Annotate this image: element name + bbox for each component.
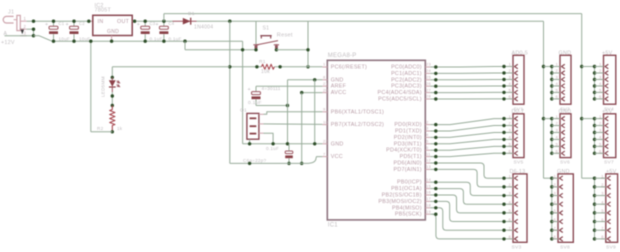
svg-text:15: 15 [426,183,431,188]
svg-text:GND: GND [331,141,344,147]
svg-text:19: 19 [426,209,431,214]
svg-text:14: 14 [426,177,431,182]
svg-text:0.1uF: 0.1uF [150,36,163,41]
svg-text:R2: R2 [97,126,104,131]
svg-text:PD3(INT1): PD3(INT1) [394,141,422,147]
svg-text:PB5(SCK): PB5(SCK) [395,212,422,218]
svg-text:+: + [45,22,48,28]
svg-text:PC6(/RESET): PC6(/RESET) [331,65,367,71]
svg-text:26: 26 [426,81,431,86]
svg-text:C1: C1 [59,21,65,26]
svg-text:PC3(ADC3): PC3(ADC3) [391,84,422,90]
svg-text:PD7(AIN1): PD7(AIN1) [393,167,421,173]
svg-text:GND: GND [557,169,570,175]
svg-text:OUT: OUT [117,19,130,25]
svg-text:PB7(XTAL2/TOSC2): PB7(XTAL2/TOSC2) [331,122,384,128]
svg-text:1k: 1k [117,126,123,131]
svg-text:PB2(SS/OC1B): PB2(SS/OC1B) [382,193,422,199]
svg-text:+: + [155,22,158,28]
svg-text:22: 22 [323,139,328,144]
svg-text:IC1: IC1 [328,223,339,229]
svg-text:SV8: SV8 [560,245,570,251]
svg-text:C3: C3 [150,21,156,26]
svg-text:MEGA8-P: MEGA8-P [328,53,357,59]
svg-text:24: 24 [426,68,431,73]
svg-text:PD6(AIN0): PD6(AIN0) [393,161,421,167]
svg-text:SV9: SV9 [606,245,616,251]
svg-text:23: 23 [426,62,431,67]
svg-text:Reset: Reset [277,33,293,39]
svg-text:+5V: +5V [602,109,613,115]
svg-text:D1: D1 [188,11,195,17]
svg-text:PB6(XTAL1/TOSC1): PB6(XTAL1/TOSC1) [331,109,384,115]
svg-text:10uF: 10uF [59,36,70,41]
svg-text:IN: IN [98,19,104,25]
svg-text:10: 10 [323,119,328,124]
svg-text:PC2(ADC2): PC2(ADC2) [391,77,422,83]
svg-text:GND: GND [331,77,344,83]
svg-text:C6a=22p?: C6a=22p? [243,158,267,163]
svg-text:20: 20 [323,87,328,92]
svg-text:0.1uF: 0.1uF [266,146,279,151]
svg-text:16: 16 [426,190,431,195]
svg-text:13: 13 [426,164,431,169]
svg-text:PC5(ADC5/SCL): PC5(ADC5/SCL) [378,97,422,103]
svg-text:4=30111: 4=30111 [262,86,281,91]
svg-text:21: 21 [323,81,328,86]
svg-text:+: + [137,22,140,28]
svg-text:SV3: SV3 [512,245,522,251]
svg-text:PD1(TXD): PD1(TXD) [395,129,422,135]
svg-text:PD4(XCK/T0): PD4(XCK/T0) [386,148,422,154]
svg-text:SV5: SV5 [514,160,524,166]
svg-text:D0-7: D0-7 [512,109,525,115]
svg-text:+12V: +12V [1,40,15,46]
svg-text:+5V: +5V [602,51,613,57]
svg-text:VCC: VCC [331,154,343,160]
svg-text:GND: GND [559,109,572,115]
svg-text:GND: GND [559,51,572,57]
svg-text:AREF: AREF [331,84,347,90]
svg-text:+5V: +5V [606,169,617,175]
svg-text:PC4(ADC4/SDA): PC4(ADC4/SDA) [378,90,422,96]
svg-text:28: 28 [426,94,431,99]
svg-text:1: 1 [24,16,27,21]
svg-text:GND: GND [107,29,119,35]
svg-text:PC0(ADC0): PC0(ADC0) [391,65,422,71]
svg-text:SV7: SV7 [604,160,614,166]
svg-text:3: 3 [24,31,27,36]
svg-text:SV6: SV6 [560,160,570,166]
svg-text:7805T: 7805T [95,8,112,14]
svg-text:1N4004: 1N4004 [194,25,213,31]
svg-text:11: 11 [426,151,431,156]
svg-text:25: 25 [426,75,431,80]
svg-text:0.1uF: 0.1uF [169,36,182,41]
svg-text:+: + [66,22,69,28]
svg-text:12: 12 [426,158,431,163]
svg-text:PD0(RXD): PD0(RXD) [394,122,421,128]
svg-text:PC1(ADC1): PC1(ADC1) [391,71,422,77]
svg-text:10k: 10k [261,69,270,75]
svg-text:LED5MM: LED5MM [101,76,106,97]
svg-text:PD5(T1): PD5(T1) [400,154,422,160]
svg-text:PB3(MOSI/OC2): PB3(MOSI/OC2) [378,199,421,205]
svg-text:S1: S1 [263,26,270,32]
svg-text:17: 17 [426,196,431,201]
svg-text:+: + [248,87,251,93]
svg-text:2: 2 [24,24,27,29]
svg-text:C2: C2 [79,21,85,26]
svg-text:D6-13: D6-13 [510,169,526,175]
svg-text:PB0(ICP): PB0(ICP) [397,180,422,186]
svg-text:Q1: Q1 [240,108,247,114]
svg-text:PB1(OC1A): PB1(OC1A) [391,186,422,192]
svg-text:AD0-5: AD0-5 [512,51,529,57]
svg-text:AVCC: AVCC [331,90,347,96]
svg-text:C4: C4 [169,21,175,26]
svg-text:27: 27 [426,87,431,92]
svg-text:PD2(INT0): PD2(INT0) [394,135,422,141]
svg-text:PB4(MISO): PB4(MISO) [392,205,422,211]
svg-text:10uF: 10uF [79,36,90,41]
svg-text:J1: J1 [8,10,14,16]
svg-text:R1: R1 [259,59,266,65]
svg-text:18: 18 [426,203,431,208]
